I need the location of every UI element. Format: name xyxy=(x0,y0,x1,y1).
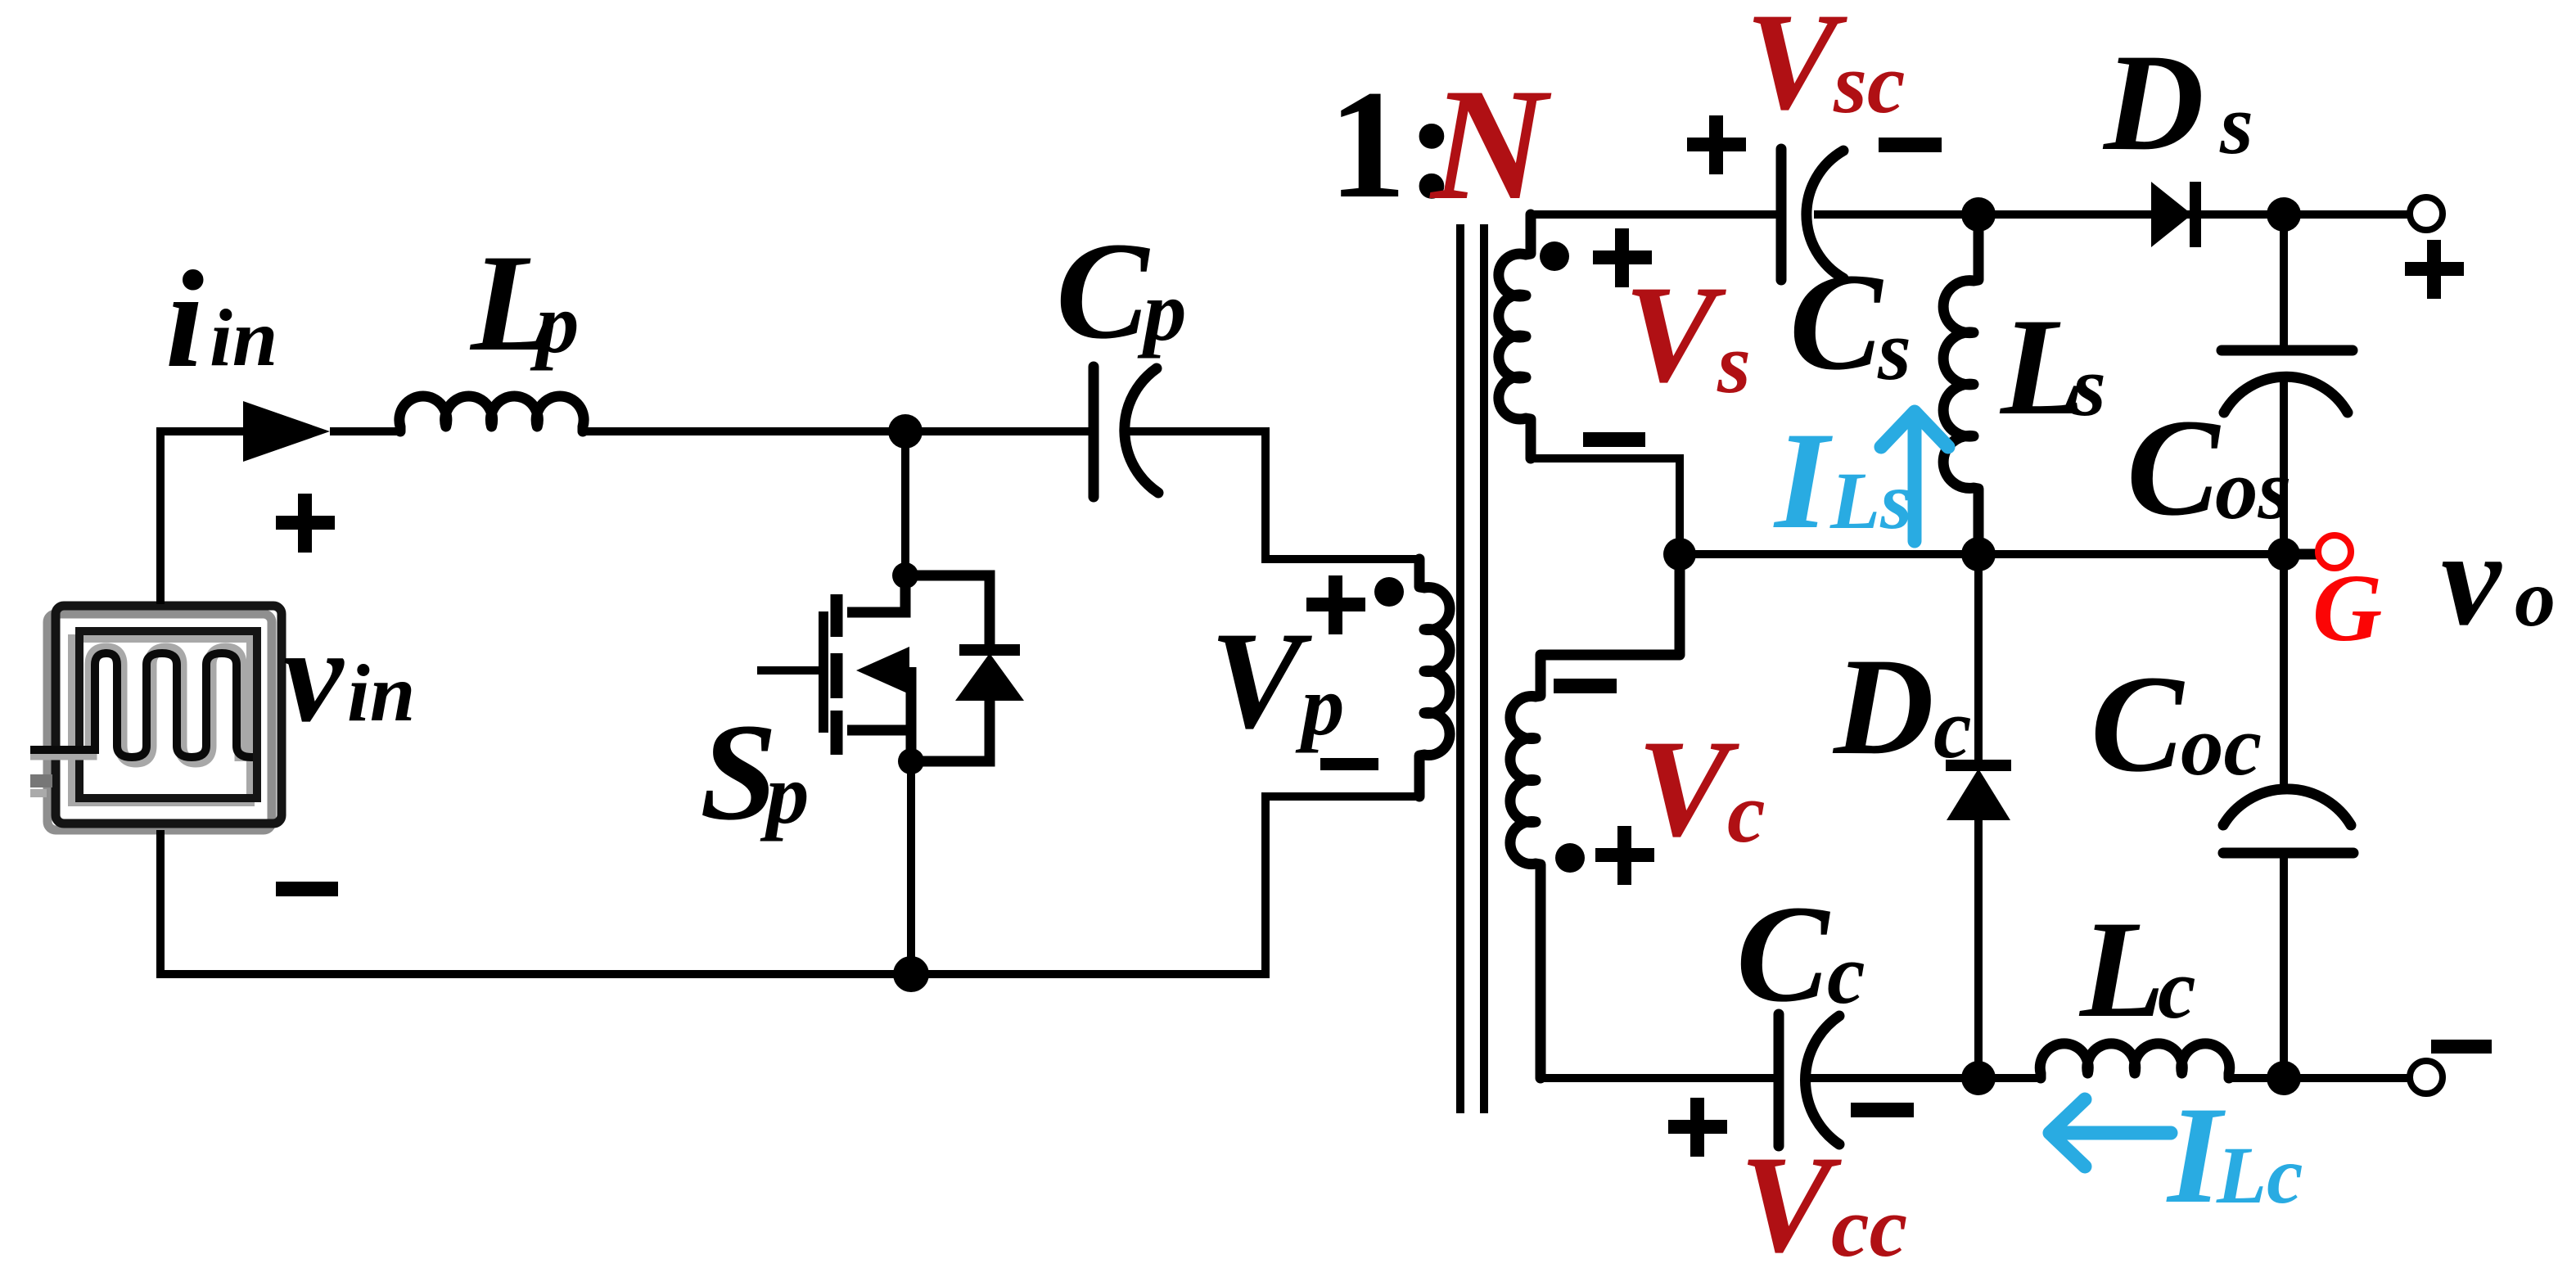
node I xyxy=(1961,1061,1996,1095)
svg-text:sc: sc xyxy=(1833,35,1905,131)
svg-text:o: o xyxy=(2515,553,2556,643)
svg-text:Lc: Lc xyxy=(2216,1130,2303,1221)
svg-text:D: D xyxy=(1832,629,1934,783)
svg-text:C: C xyxy=(1736,877,1830,1031)
node F xyxy=(1961,197,1996,232)
svg-text:in: in xyxy=(210,292,277,383)
svg-text:c: c xyxy=(1933,680,1972,776)
node E2 xyxy=(1961,537,1996,571)
node G (top right) xyxy=(2267,197,2301,232)
svg-text:p: p xyxy=(1295,657,1345,753)
wire: bottom secondary rail xyxy=(1541,1074,2411,1082)
inductor Ls xyxy=(1943,214,1978,554)
node H xyxy=(2267,538,2300,571)
transformer secondary winding Vs xyxy=(1499,214,1531,458)
polarity dot (Vs) xyxy=(1540,241,1569,271)
svg-text:V: V xyxy=(1637,711,1739,865)
node E xyxy=(1663,538,1696,571)
polarity dot (Vp) xyxy=(1374,577,1404,607)
arrow i_in xyxy=(243,401,330,462)
polarity dot (Vc) xyxy=(1555,843,1585,873)
wire: secondary top rail right xyxy=(1814,210,2411,219)
diode (body) of Sp xyxy=(905,575,1024,761)
node J xyxy=(2267,1061,2301,1095)
transformer primary winding Vp xyxy=(1419,559,1450,796)
label - (Vc) xyxy=(1554,679,1617,693)
svg-text:p: p xyxy=(760,746,810,842)
svg-text:v: v xyxy=(283,600,345,750)
wire: bottom rail to primary bottom xyxy=(911,796,1419,974)
inductor Lp xyxy=(399,396,584,431)
output terminal + xyxy=(2410,197,2443,230)
svg-text:s: s xyxy=(1717,315,1751,411)
svg-text:C: C xyxy=(2091,647,2185,801)
svg-text:p: p xyxy=(530,275,580,371)
ground stub xyxy=(2284,549,2317,560)
svg-text:i: i xyxy=(165,242,204,396)
output terminal - xyxy=(2410,1061,2443,1094)
wire: secondary top rail left xyxy=(1531,210,1781,219)
svg-text:G: G xyxy=(2312,554,2382,661)
svg-text:D: D xyxy=(2102,25,2204,179)
svg-text:s: s xyxy=(1877,302,1911,398)
label - (v_in) xyxy=(276,882,338,896)
wire: arrow to Lp xyxy=(330,427,400,435)
svg-text:I: I xyxy=(1773,404,1833,557)
ground terminal G xyxy=(2318,535,2351,568)
label + (Vc) xyxy=(1595,826,1654,885)
transformer core xyxy=(1460,224,1484,1113)
label + (Vsc) xyxy=(1687,115,1746,174)
source icon (input generator box) xyxy=(30,606,282,830)
svg-text:c: c xyxy=(1727,765,1766,860)
capacitor Cc xyxy=(1779,1014,1839,1146)
capacitor Cos xyxy=(2222,350,2353,413)
svg-text:v: v xyxy=(2441,503,2502,653)
diode Ds xyxy=(2151,182,2195,247)
label - (vo) xyxy=(2431,1040,2492,1054)
label + (Vp) xyxy=(1306,575,1365,634)
wire: node C to bottom rail xyxy=(907,761,915,974)
svg-text:Ls: Ls xyxy=(1829,455,1912,546)
node D xyxy=(893,956,929,992)
svg-text:cc: cc xyxy=(1831,1179,1907,1275)
svg-text:N: N xyxy=(1429,56,1552,233)
label + (v_in) xyxy=(276,494,335,553)
label - (Vs) xyxy=(1583,432,1645,447)
arrow I_Lc xyxy=(2050,1099,2171,1166)
wire: Cp to primary top xyxy=(1128,431,1419,559)
transistor Sp (MOSFET) xyxy=(757,575,911,761)
label - (Vsc) xyxy=(1879,138,1942,152)
node B xyxy=(892,562,918,589)
svg-text:V: V xyxy=(1745,0,1847,138)
wire: node A down to node B xyxy=(901,431,909,575)
wire: Lp to node A and Cp xyxy=(583,427,1094,435)
label + (vo) xyxy=(2405,240,2464,299)
transformer secondary winding Vc xyxy=(1510,554,1680,1078)
wire: Vs bottom to middle rail xyxy=(1531,458,1680,554)
diode Dc xyxy=(1946,554,2011,1078)
wire: source top to arrow xyxy=(160,431,243,604)
svg-text:V: V xyxy=(1739,1127,1842,1281)
wire: node G down through Cos to middle rail xyxy=(2280,214,2288,554)
svg-text:c: c xyxy=(2158,941,2196,1036)
node C xyxy=(898,748,924,774)
svg-text:p: p xyxy=(1137,263,1187,359)
capacitor Coc xyxy=(2223,789,2353,853)
svg-text:C: C xyxy=(1056,214,1150,368)
inductor Lc xyxy=(2040,1044,2230,1078)
svg-text:oc: oc xyxy=(2181,697,2262,793)
svg-text:c: c xyxy=(1827,926,1865,1022)
svg-text:s: s xyxy=(2219,76,2253,172)
label - (Vp) xyxy=(1320,758,1378,770)
wire: source bottom rail xyxy=(160,830,911,974)
arrow I_Ls xyxy=(1881,412,1948,541)
wire: node H through Coc to bottom rail xyxy=(2280,554,2288,1078)
label + (Cc) xyxy=(1668,1098,1727,1157)
svg-text:V: V xyxy=(1624,257,1726,411)
capacitor Cp xyxy=(1094,367,1158,497)
label - (Cc) xyxy=(1851,1103,1914,1117)
svg-text:in: in xyxy=(347,648,415,738)
middle rail xyxy=(1680,550,2284,558)
capacitor Cs xyxy=(1781,149,1843,280)
node A xyxy=(888,414,923,449)
svg-text:C: C xyxy=(1789,245,1884,399)
svg-text:s: s xyxy=(2072,338,2106,434)
svg-text:C: C xyxy=(2127,390,2221,544)
svg-text:V: V xyxy=(1210,603,1312,757)
svg-text:L: L xyxy=(2078,892,2165,1046)
label + (Vs) xyxy=(1593,228,1652,287)
